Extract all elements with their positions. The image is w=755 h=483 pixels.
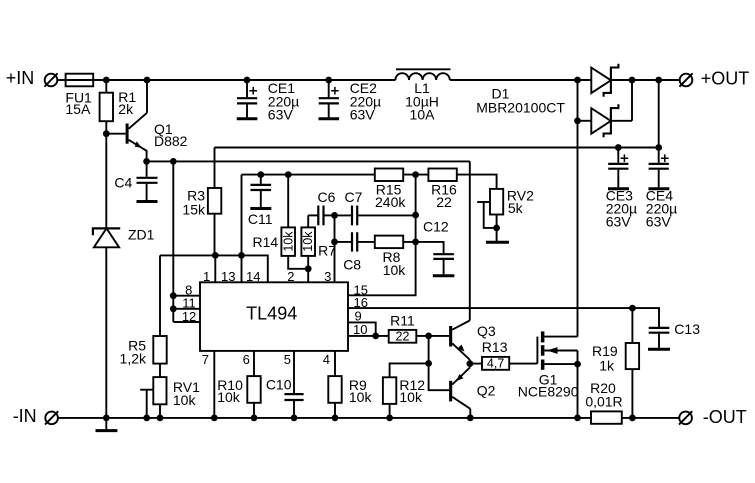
svg-text:15k: 15k bbox=[182, 201, 206, 217]
svg-text:6: 6 bbox=[243, 352, 250, 367]
svg-text:MBR20100CT: MBR20100CT bbox=[476, 99, 565, 115]
capacitor C10 bbox=[284, 351, 303, 418]
capacitor CE1 bbox=[237, 80, 258, 119]
svg-text:NCE8290: NCE8290 bbox=[518, 384, 579, 400]
resistor R11 bbox=[389, 330, 417, 343]
zener ZD1 bbox=[93, 228, 120, 418]
wire R15 to R16 bbox=[403, 174, 428, 176]
label G1 NCE8290 bbox=[518, 372, 579, 400]
svg-text:C8: C8 bbox=[343, 256, 361, 272]
wire pin 11 stub bbox=[173, 308, 200, 310]
node switch node on rail bbox=[574, 77, 581, 84]
capacitor C12 bbox=[433, 254, 455, 276]
wire Q1 emitter line bbox=[147, 160, 470, 162]
svg-text:10k: 10k bbox=[217, 389, 241, 405]
capacitor C7 bbox=[335, 206, 416, 226]
svg-text:5k: 5k bbox=[508, 200, 524, 216]
resistor R12 bbox=[383, 363, 429, 418]
wire sense rail corner down to R3 bbox=[214, 148, 216, 189]
svg-text:10k: 10k bbox=[173, 392, 197, 408]
node pin 13 junction bbox=[238, 252, 245, 259]
wire pin 7 stub to rail bbox=[213, 351, 215, 418]
node C8 junction bbox=[331, 239, 338, 246]
node pin 9 10 junction bbox=[372, 333, 379, 340]
svg-text:63V: 63V bbox=[646, 213, 672, 229]
wire top rail L1 to D1 bbox=[450, 79, 592, 81]
node Q2 collector on rail bbox=[467, 415, 474, 422]
node C11 top bbox=[257, 171, 264, 178]
node R1 top bbox=[103, 77, 110, 84]
capacitor C4 bbox=[137, 161, 158, 201]
wire R8 to C12 bbox=[403, 242, 443, 253]
node D1 lower anode bbox=[574, 117, 581, 124]
resistor R19 bbox=[626, 308, 639, 418]
svg-text:4,7: 4,7 bbox=[487, 357, 504, 371]
resistor R7 bbox=[301, 215, 315, 282]
svg-text:14: 14 bbox=[246, 269, 260, 284]
label R12 10k bbox=[399, 377, 425, 405]
svg-text:1,2k: 1,2k bbox=[120, 351, 147, 367]
svg-text:R19: R19 bbox=[592, 343, 618, 359]
svg-text:10k: 10k bbox=[399, 389, 423, 405]
inductor L1 bbox=[395, 69, 450, 80]
node R14 top bbox=[285, 171, 292, 178]
IC U1 TL494 bbox=[200, 282, 348, 351]
wire vcc bus vertical to pins 8 11 12 bbox=[172, 161, 174, 322]
node R19 bottom on rail bbox=[629, 415, 636, 422]
resistor R1 bbox=[100, 80, 113, 228]
label RV1 10k bbox=[173, 379, 200, 408]
resistor R13 bbox=[482, 357, 509, 370]
node Q1 collector on rail bbox=[144, 77, 151, 84]
svg-text:3: 3 bbox=[324, 269, 331, 284]
diode D1 lower schottky bbox=[578, 80, 633, 137]
node R10 bottom on rail bbox=[251, 415, 258, 422]
svg-text:15A: 15A bbox=[65, 101, 91, 117]
label R1 2k bbox=[118, 89, 136, 117]
label R3 15k bbox=[182, 188, 206, 218]
node base bus junction bbox=[425, 333, 432, 340]
wire +OUT branch down to CE4 rail bbox=[658, 80, 660, 148]
resistor R10 bbox=[247, 351, 260, 418]
svg-text:+OUT: +OUT bbox=[701, 68, 750, 88]
svg-text:C6: C6 bbox=[318, 189, 336, 205]
wire pin 12 stub bbox=[173, 321, 200, 323]
svg-text:10k: 10k bbox=[281, 231, 295, 252]
svg-text:C12: C12 bbox=[423, 219, 449, 235]
svg-text:5: 5 bbox=[284, 352, 291, 367]
wire R13 to G1 gate bbox=[509, 363, 537, 365]
label R8 10k bbox=[383, 249, 407, 278]
node pin 1 junction bbox=[212, 252, 219, 259]
node R15 R16 junction bbox=[412, 171, 419, 178]
svg-text:C11: C11 bbox=[248, 211, 273, 227]
wire output sense rail bbox=[215, 147, 659, 149]
wire feedback vertical to pin 15 bbox=[348, 175, 416, 296]
node C4 tap bbox=[143, 158, 150, 165]
wire vref rail corner down to pin 13 bbox=[241, 175, 243, 283]
label R16 22 bbox=[431, 182, 457, 211]
node C6 C7 junction bbox=[331, 212, 338, 219]
svg-text:10k: 10k bbox=[349, 389, 373, 405]
svg-text:R11: R11 bbox=[390, 313, 415, 329]
wire emitter node to R13 bbox=[470, 363, 482, 365]
label CE2 220u 63V bbox=[350, 80, 381, 122]
node R19 top bbox=[629, 305, 636, 312]
svg-text:ZD1: ZD1 bbox=[128, 226, 155, 242]
node CE1 top bbox=[244, 77, 251, 84]
node RV2 wiper junction bbox=[493, 225, 500, 232]
label CE3 220u 63V bbox=[606, 187, 637, 229]
label CE1 220u 63V bbox=[268, 80, 299, 122]
fuse FU1 bbox=[66, 74, 94, 87]
svg-text:13: 13 bbox=[221, 269, 235, 284]
svg-text:63V: 63V bbox=[350, 106, 376, 122]
node RV1 bottom on rail bbox=[157, 415, 164, 422]
node R8 C12 junction bbox=[412, 239, 419, 246]
label L1 10uH 10A bbox=[405, 80, 439, 122]
node +OUT branch bbox=[655, 77, 662, 84]
resistor R5 bbox=[153, 255, 166, 377]
svg-text:Q3: Q3 bbox=[477, 323, 496, 339]
label R15 240k bbox=[375, 182, 406, 211]
label R10 10k bbox=[217, 377, 243, 405]
ground RV2 bbox=[486, 241, 509, 244]
svg-text:C13: C13 bbox=[674, 321, 700, 337]
wire pin 9 stub bbox=[348, 322, 376, 336]
resistor R8 bbox=[375, 236, 403, 249]
node RV1 wiper on rail bbox=[143, 415, 150, 422]
svg-text:-IN: -IN bbox=[13, 406, 37, 426]
node G1 source junction bbox=[574, 361, 581, 368]
node ground tap bbox=[103, 415, 110, 422]
potentiometer RV1 bbox=[140, 377, 166, 418]
svg-text:2: 2 bbox=[287, 269, 294, 284]
diode D1 upper schottky bbox=[591, 64, 618, 97]
svg-text:+IN: +IN bbox=[6, 68, 35, 88]
node pin 2 junction bbox=[305, 265, 312, 272]
node R12 bottom on rail bbox=[386, 415, 393, 422]
label CE4 220u 63V bbox=[646, 187, 677, 229]
svg-text:R14: R14 bbox=[253, 234, 279, 250]
capacitor C6 bbox=[308, 206, 334, 226]
node feedback C7 tap bbox=[412, 212, 419, 219]
node D1 cathode junction bbox=[629, 77, 636, 84]
svg-text:1: 1 bbox=[203, 269, 210, 284]
ground bbox=[96, 418, 118, 431]
svg-text:C7: C7 bbox=[345, 189, 363, 205]
label R20 0,01R bbox=[585, 380, 622, 409]
label D1 MBR20100CT bbox=[476, 86, 565, 116]
wire top rail fuse to L1 bbox=[93, 79, 395, 81]
node CE2 top bbox=[325, 77, 332, 84]
node R12 tap bbox=[425, 360, 432, 367]
transistor Q2 bbox=[449, 364, 470, 418]
svg-text:63V: 63V bbox=[268, 106, 294, 122]
resistor R15 bbox=[375, 169, 403, 182]
capacitor C8 bbox=[335, 232, 375, 251]
label RV2 5k bbox=[507, 187, 534, 216]
terminal -OUT bbox=[679, 411, 692, 424]
svg-text:Q2: Q2 bbox=[477, 382, 496, 398]
node C10 bottom on rail bbox=[291, 415, 298, 422]
wire pin 10 stub bbox=[348, 335, 389, 337]
label Q1 D882 bbox=[154, 121, 188, 149]
node pins-8-11-12 tap bbox=[170, 158, 177, 165]
node G1 source on rail bbox=[574, 415, 581, 422]
capacitor C13 bbox=[648, 328, 670, 349]
wire pin1-13-14 link bbox=[160, 255, 268, 282]
svg-text:10A: 10A bbox=[410, 106, 436, 122]
terminal +OUT bbox=[679, 73, 692, 86]
wire top rail terminal to fuse bbox=[57, 79, 65, 81]
svg-text:240k: 240k bbox=[375, 194, 406, 210]
wire top rail D1 to +OUT bbox=[611, 79, 680, 81]
svg-text:22: 22 bbox=[436, 194, 452, 210]
transistor Q3 bbox=[449, 161, 470, 363]
terminal +IN bbox=[44, 73, 57, 86]
svg-text:1k: 1k bbox=[599, 358, 615, 374]
wire switch node vertical to G1 drain bbox=[577, 80, 579, 337]
resistor R3 bbox=[208, 188, 221, 255]
svg-text:7: 7 bbox=[202, 352, 209, 367]
svg-text:-OUT: -OUT bbox=[703, 407, 747, 427]
transistor Q1 bbox=[106, 80, 147, 161]
svg-text:D882: D882 bbox=[154, 133, 188, 149]
wire R16 to RV2 bbox=[457, 175, 497, 189]
resistor R16 bbox=[428, 169, 456, 182]
potentiometer RV2 bbox=[477, 189, 503, 241]
resistor R20 bbox=[591, 411, 622, 423]
wire vref rail bbox=[242, 174, 375, 176]
capacitor CE3 bbox=[608, 148, 629, 189]
svg-text:TL494: TL494 bbox=[246, 304, 297, 324]
svg-text:4: 4 bbox=[323, 352, 330, 367]
node emitter junction bbox=[467, 360, 474, 367]
capacitor CE2 bbox=[319, 80, 340, 119]
svg-text:C4: C4 bbox=[114, 174, 132, 190]
svg-text:10k: 10k bbox=[301, 231, 315, 252]
wire pin 1 stub bbox=[214, 255, 216, 282]
node pin 11 junction bbox=[170, 305, 177, 312]
svg-text:12: 12 bbox=[182, 309, 196, 324]
wire bottom rail left bbox=[58, 417, 591, 419]
terminal -IN bbox=[45, 411, 58, 424]
wire pin 16 line to R19 and C13 bbox=[348, 308, 659, 327]
wire pin 8 stub bbox=[173, 295, 200, 297]
svg-text:C10: C10 bbox=[266, 376, 292, 392]
mosfet G1 bbox=[537, 331, 577, 418]
wire bottom rail right bbox=[622, 417, 679, 419]
svg-text:63V: 63V bbox=[606, 213, 632, 229]
wire R11 to Q3 base bbox=[416, 335, 449, 337]
label R9 10k bbox=[349, 377, 373, 405]
node pin 8 junction bbox=[170, 292, 177, 299]
node Q1 base tap bbox=[103, 130, 110, 137]
capacitor CE4 bbox=[648, 148, 669, 189]
svg-text:10k: 10k bbox=[383, 262, 407, 278]
label R19 1k bbox=[592, 343, 618, 374]
wire base bus vertical to Q2 base bbox=[429, 336, 450, 390]
svg-text:2k: 2k bbox=[118, 101, 134, 117]
resistor R9 bbox=[328, 351, 341, 418]
capacitor C11 bbox=[250, 175, 271, 209]
wire pin 3 vertical bbox=[334, 215, 336, 282]
resistor R14 bbox=[281, 175, 308, 269]
label FU1 15A bbox=[65, 89, 92, 117]
node CE3 top bbox=[615, 144, 622, 151]
node R9 bottom on rail bbox=[332, 415, 339, 422]
label R5 1,2k bbox=[120, 338, 147, 367]
node CE4 top bbox=[655, 144, 662, 151]
svg-text:22: 22 bbox=[396, 330, 410, 344]
svg-text:0,01R: 0,01R bbox=[585, 393, 622, 409]
node pin 7 on rail bbox=[211, 415, 218, 422]
svg-text:R13: R13 bbox=[482, 339, 508, 355]
